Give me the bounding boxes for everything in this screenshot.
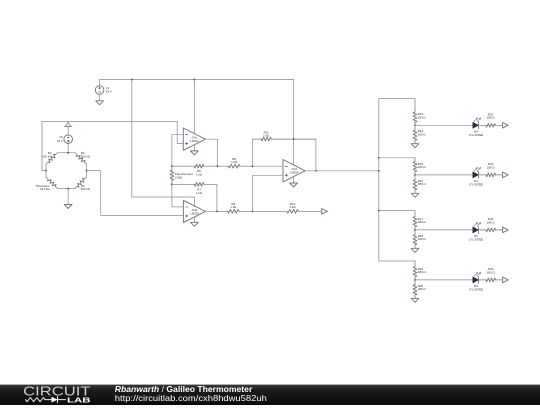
wire OA2 - input (172, 184, 184, 207)
wire divider to D1 (415, 174, 473, 176)
wire OA3 + input (253, 175, 283, 211)
wire OA3 V- to ground (293, 176, 295, 183)
label D1 (469, 179, 483, 186)
junction feedback-output (315, 170, 317, 172)
junction pot bottom (171, 183, 173, 185)
junction OA3 - node (252, 165, 254, 167)
svg-text:180 Ω: 180 Ω (487, 116, 496, 120)
wire divider to D4 (415, 124, 473, 126)
resistor R23 (479, 173, 503, 177)
label R19 (418, 267, 427, 274)
LED D4 (473, 118, 481, 129)
wire ladder bus (379, 99, 415, 261)
resistor R9 (217, 210, 253, 214)
resistor R11 (253, 137, 316, 141)
junction divider node D3 (414, 279, 416, 281)
voltage source V1 (95, 86, 111, 95)
label R12 (290, 202, 297, 209)
label R16 (418, 179, 427, 186)
resistor R19 (413, 261, 417, 280)
ground below R18 (411, 248, 419, 252)
wire OA1 output (205, 139, 217, 166)
svg-text:1 kΩ: 1 kΩ (196, 191, 203, 195)
svg-text:180 Ω: 180 Ω (487, 220, 496, 224)
resistor R16 (413, 175, 417, 193)
svg-text:180 Ω: 180 Ω (418, 165, 427, 169)
svg-text:180 Ω: 180 Ω (418, 220, 427, 224)
ground below R14 (411, 144, 419, 148)
svg-text:LAB: LAB (67, 396, 91, 405)
resistor R3 (75, 153, 87, 165)
svg-text:180 Ω: 180 Ω (418, 287, 427, 291)
wire V1 bottom to ground (99, 94, 101, 101)
junction bridge left node (45, 170, 47, 172)
label D2 (469, 234, 483, 241)
resistor R18 (413, 230, 417, 248)
ground below R20 (411, 298, 419, 302)
svg-text:1 kΩ: 1 kΩ (196, 172, 203, 176)
wire OA3 feedback riser (252, 139, 254, 166)
resistor R22 (479, 124, 503, 128)
junction rail-OA1 feed (193, 79, 195, 81)
wire V2 to bridge top (67, 144, 69, 153)
label R7 (196, 188, 203, 195)
svg-text:617 kΩ: 617 kΩ (40, 187, 50, 191)
resistor R13 (413, 99, 417, 126)
resistor R15 (413, 158, 417, 175)
label R22 (487, 112, 496, 119)
wire bridge bottom edge (58, 188, 76, 190)
wire bridge left edge (45, 164, 47, 177)
ground below V1 (96, 101, 104, 105)
wire rail drop to OA2 V+ (132, 80, 195, 206)
svg-text:1 kΩ: 1 kΩ (230, 205, 237, 209)
svg-text:180 Ω: 180 Ω (487, 270, 496, 274)
junction OA2 out node (216, 210, 218, 212)
net flag arrow above V2 (64, 122, 72, 126)
ground below bridge (64, 205, 72, 209)
junction bus-OA3 output (378, 170, 380, 172)
svg-text:620 kΩ: 620 kΩ (42, 155, 52, 159)
svg-text:1 kΩ: 1 kΩ (290, 205, 297, 209)
label R4 (81, 184, 91, 191)
LED D2 (473, 222, 481, 233)
label R15 (418, 162, 427, 169)
junction divider node D4 (414, 124, 416, 126)
output arrow D4 (503, 123, 509, 129)
label R20 (418, 284, 427, 291)
label R23 (487, 162, 496, 169)
svg-text:180 Ω: 180 Ω (418, 133, 427, 137)
svg-text:15 V: 15 V (106, 90, 112, 94)
output arrow after R12 (322, 209, 328, 215)
junction bridge right node (86, 170, 88, 172)
wire OA2 output (206, 210, 217, 212)
wire divider to D3 (415, 279, 473, 281)
svg-text:620 kΩ: 620 kΩ (81, 155, 91, 159)
wire R8 to OA3 - (253, 165, 283, 167)
label D3 (469, 284, 483, 291)
label R14 (418, 129, 427, 136)
resistor R17 (413, 211, 417, 230)
resistor R6 (172, 164, 218, 168)
junction pot top (171, 165, 173, 167)
op-amp OA3 (283, 160, 305, 182)
LED D1 (473, 167, 481, 178)
junction bridge top node (67, 152, 69, 154)
wire OA1 - input (172, 135, 183, 167)
wire feedback to output (315, 139, 317, 171)
op-amp OA1 (183, 128, 205, 150)
svg-text:180 Ω: 180 Ω (487, 165, 496, 169)
CircuitLab logo text (23, 384, 91, 405)
ground below OA1 (191, 151, 199, 155)
svg-text:LTL-307EE: LTL-307EE (469, 133, 483, 137)
label potentiometer (175, 172, 193, 179)
junction feedback-rail crossing (293, 138, 295, 140)
svg-text:LM324: LM324 (190, 139, 199, 143)
output arrow D2 (503, 227, 509, 233)
junction bus tap 3 (378, 210, 380, 212)
svg-text:1 kΩ: 1 kΩ (263, 134, 270, 138)
resistor R12 (253, 210, 322, 214)
potentiometer P1 (170, 166, 174, 184)
resistor R8 (218, 164, 253, 168)
voltage source V2 (57, 135, 73, 144)
output arrow D1 (503, 172, 509, 178)
wire bus tap 2 (379, 157, 415, 159)
wire bridge top edge (58, 152, 76, 154)
svg-text:OA3: OA3 (292, 167, 298, 171)
ground below OA2 (191, 222, 199, 226)
svg-text:2 MΩ: 2 MΩ (175, 175, 183, 179)
svg-text:15 V: 15 V (57, 139, 63, 143)
label R13 (418, 112, 427, 119)
wire flag to V2 (67, 126, 69, 135)
label R11 (263, 130, 270, 137)
svg-text:OA2: OA2 (192, 208, 198, 212)
label R17 (418, 217, 427, 224)
svg-text:620 kΩ: 620 kΩ (81, 187, 91, 191)
label thermistor (36, 184, 51, 191)
junction rail-OA2 feed (131, 79, 133, 81)
wire bridge right edge (86, 164, 88, 177)
label R25 (487, 267, 496, 274)
svg-text:LTL-307EE: LTL-307EE (469, 237, 483, 241)
label R3 (81, 151, 91, 158)
wire bus tap 3 (379, 210, 415, 212)
output arrow D3 (503, 277, 509, 283)
ground below OA3 (290, 183, 298, 187)
op-amp OA2 (183, 200, 205, 222)
wire rail drop to OA3 V+ (293, 80, 295, 165)
wire rail drop to OA1 V+ (193, 80, 195, 134)
wire R7 to OA2 output (216, 184, 218, 211)
svg-text:LTL-307EE: LTL-307EE (469, 287, 483, 291)
junction OA1 out node (217, 165, 219, 167)
label R9 (230, 202, 237, 209)
wire bridge bottom to ground (67, 189, 69, 205)
label D4 (469, 129, 483, 136)
logo schematic squiggle (26, 397, 66, 403)
svg-text:LM324: LM324 (190, 211, 199, 215)
resistor R4 (75, 177, 87, 189)
ground below R16 (411, 193, 419, 197)
svg-text:OA1: OA1 (192, 136, 198, 140)
resistor R24 (479, 228, 503, 232)
svg-text:LM324: LM324 (290, 171, 299, 175)
svg-text:LTL-307EE: LTL-307EE (469, 182, 483, 186)
wire OA1 V- to ground (193, 145, 195, 151)
thermistor RT1 (46, 177, 58, 189)
label R6 (196, 169, 203, 176)
svg-text:1 kΩ: 1 kΩ (231, 160, 238, 164)
svg-text:180 Ω: 180 Ω (418, 237, 427, 241)
svg-text:180 Ω: 180 Ω (418, 270, 427, 274)
resistor R2 (46, 153, 58, 165)
junction divider node D2 (414, 229, 416, 231)
wire OA2 V- to ground (193, 217, 195, 222)
junction bus tap 2 (378, 157, 380, 159)
junction OA3 + node (252, 210, 254, 212)
resistor R14 (413, 125, 417, 143)
wire bridge right to OA2 + (87, 171, 184, 216)
label R8 (231, 157, 238, 164)
label R24 (487, 217, 496, 224)
wire divider to D2 (415, 229, 473, 231)
svg-text:180 Ω: 180 Ω (418, 116, 427, 120)
wire V1 top to rail (99, 80, 101, 86)
svg-text:http://circuitlab.com/cxh8hdwu: http://circuitlab.com/cxh8hdwu582uh (115, 393, 267, 403)
junction bridge bottom node (67, 188, 69, 190)
wire OA3 output to bus (305, 170, 379, 172)
LED D3 (473, 272, 481, 283)
wire bridge left to OA1 + (42, 121, 183, 170)
resistor R20 (413, 280, 417, 298)
junction divider node D1 (414, 174, 416, 176)
label R2 (42, 151, 52, 158)
resistor R7 (172, 183, 217, 187)
svg-text:180 Ω: 180 Ω (418, 182, 427, 186)
label R18 (418, 234, 427, 241)
wire top supply rail (100, 79, 294, 81)
resistor R25 (479, 278, 503, 282)
